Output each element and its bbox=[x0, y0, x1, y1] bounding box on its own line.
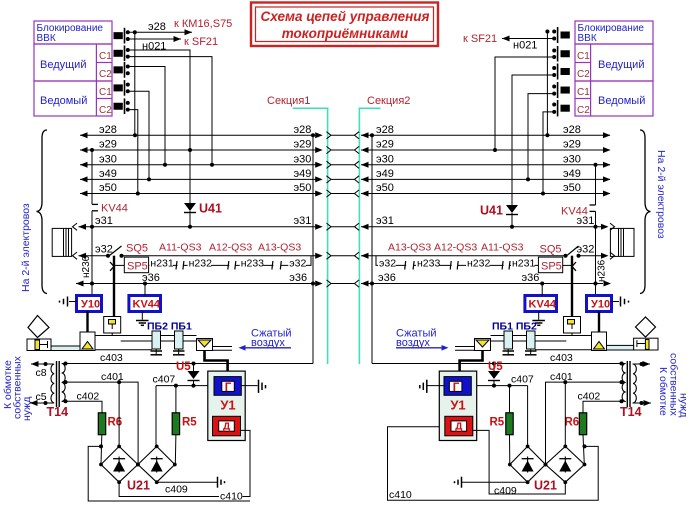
svg-text:с8: с8 bbox=[36, 367, 47, 379]
svg-text:SP5: SP5 bbox=[541, 261, 562, 273]
svg-text:э29: э29 bbox=[99, 139, 117, 151]
block Ведомый (left) bbox=[34, 81, 112, 116]
svg-text:э32: э32 bbox=[577, 244, 595, 256]
contact C1 Ведущий (right) bbox=[552, 46, 569, 62]
section boundary line 2 bbox=[359, 108, 381, 364]
wire valve to Г unit (right) bbox=[460, 351, 483, 373]
svg-text:с403: с403 bbox=[550, 352, 573, 364]
svg-text:э50: э50 bbox=[563, 182, 581, 194]
svg-text:Д: Д bbox=[455, 422, 462, 433]
rectifier bridge U21-2 (left) bbox=[136, 445, 177, 485]
contact C2 Ведомый (left) bbox=[114, 98, 130, 114]
wire common vertical to э28 (right) bbox=[545, 30, 549, 138]
air pipe lines (right) bbox=[491, 336, 593, 350]
contact blocking BBK (right) bbox=[552, 27, 569, 43]
svg-text:На 2-й электровоз: На 2-й электровоз bbox=[655, 150, 667, 239]
svg-text:У1: У1 bbox=[220, 398, 235, 413]
svg-text:С1: С1 bbox=[577, 51, 590, 62]
svg-text:э49: э49 bbox=[376, 168, 394, 180]
rectifier bridge U21-1 (right) bbox=[508, 445, 547, 485]
wire C2-Ведущий bottom to э30 bbox=[128, 67, 167, 167]
rectifier bridge U21-1 (left) bbox=[99, 445, 140, 485]
ground below KV44 (left) bbox=[136, 312, 149, 326]
valve ПБ2 (left) bbox=[151, 331, 163, 356]
wire э28 to КМ16 (left) bbox=[128, 21, 192, 35]
air pipe lines (left) bbox=[95, 336, 197, 350]
contact C1 Ведомый (left) bbox=[114, 80, 130, 96]
svg-text:н233: н233 bbox=[417, 258, 440, 270]
svg-text:э28: э28 bbox=[99, 124, 117, 136]
svg-text:э49: э49 bbox=[563, 168, 581, 180]
wire to нужды bottom (right) bbox=[633, 400, 652, 406]
svg-text:к SF21: к SF21 bbox=[463, 33, 497, 45]
svg-text:A13-QS3: A13-QS3 bbox=[258, 242, 301, 254]
svg-text:Т14: Т14 bbox=[620, 405, 642, 419]
contact C2 Ведущий (left) bbox=[114, 62, 130, 78]
wire э29 right segment bbox=[361, 139, 611, 154]
svg-text:с5: с5 bbox=[36, 391, 47, 403]
node н231 (left) bbox=[149, 258, 173, 268]
svg-text:э28: э28 bbox=[294, 124, 312, 136]
wire э49 left segment bbox=[80, 168, 323, 183]
node н231 (right) bbox=[511, 258, 535, 268]
wire э49 right segment bbox=[361, 168, 611, 183]
contact QS3 aux 3 (right) bbox=[405, 261, 414, 270]
wire C1-Ведущий to э29 (right) bbox=[493, 57, 554, 152]
lamp Г (left) bbox=[214, 377, 241, 396]
wire э28 to с403 (right) bbox=[370, 133, 374, 363]
wire У10 to valve (right) bbox=[598, 312, 600, 333]
unit У1 (right) bbox=[439, 371, 476, 440]
svg-text:U41: U41 bbox=[480, 204, 503, 218]
wire с8 arrow (left) bbox=[31, 361, 54, 379]
wire return rail (left) bbox=[88, 444, 250, 501]
wire C1-Ведомый to э49 bbox=[128, 91, 151, 181]
air valve with triangle (right) bbox=[475, 339, 491, 351]
svg-text:э49: э49 bbox=[99, 168, 117, 180]
svg-text:э30: э30 bbox=[294, 153, 312, 165]
contact QS3 aux 2 (left) bbox=[228, 261, 236, 270]
pressure switch SP5 (left) bbox=[110, 256, 149, 317]
svg-text:с409: с409 bbox=[165, 484, 188, 496]
diode U41 (left) bbox=[184, 202, 222, 229]
connector break э49 bbox=[327, 176, 360, 183]
wire э30 left segment bbox=[80, 153, 323, 168]
ground at Г (right) bbox=[420, 380, 444, 393]
block Ведущий (right) bbox=[575, 44, 653, 81]
svg-text:н232: н232 bbox=[467, 258, 490, 270]
block Блокирование ВВК (left) bbox=[34, 21, 112, 44]
transformer T14 (left) bbox=[47, 361, 69, 419]
svg-text:Схема цепей управления: Схема цепей управления bbox=[261, 9, 430, 24]
svg-text:э31: э31 bbox=[294, 215, 312, 227]
wire C1-Ведомый to э49 (right) bbox=[526, 94, 554, 182]
air pipe cyan segment (left) bbox=[51, 346, 80, 351]
svg-text:A11-QS3: A11-QS3 bbox=[481, 242, 524, 254]
svg-text:н232: н232 bbox=[189, 258, 212, 270]
svg-text:KV44: KV44 bbox=[561, 206, 588, 218]
svg-text:SQ5: SQ5 bbox=[126, 243, 148, 255]
valve body SP5 (right) bbox=[564, 317, 581, 336]
svg-text:Т14: Т14 bbox=[47, 405, 69, 419]
node н232 (right) bbox=[466, 258, 490, 268]
title box bbox=[251, 3, 438, 47]
svg-text:С2: С2 bbox=[99, 69, 112, 80]
svg-text:с401: с401 bbox=[101, 371, 124, 383]
svg-text:н236: н236 bbox=[597, 259, 608, 282]
diode U41 (right) bbox=[480, 204, 518, 229]
svg-text:A11-QS3: A11-QS3 bbox=[159, 242, 202, 254]
wire э36 right segment bbox=[361, 272, 611, 287]
contact QS3 aux 3 (left) bbox=[272, 261, 281, 270]
svg-text:R5: R5 bbox=[182, 417, 197, 429]
valve body У10 (left) bbox=[80, 332, 95, 351]
connector break э36 bbox=[327, 280, 360, 287]
svg-text:A12-QS3: A12-QS3 bbox=[209, 242, 252, 254]
svg-text:нужд: нужд bbox=[21, 397, 33, 421]
valve coil У10 (left) bbox=[77, 296, 102, 312]
svg-text:С1: С1 bbox=[577, 87, 590, 98]
air pipe cyan segment (right) bbox=[606, 345, 634, 350]
connector socket (left) bbox=[52, 228, 71, 256]
svg-text:KV44: KV44 bbox=[101, 203, 128, 215]
relay contact KV44 (left) bbox=[90, 148, 128, 296]
contact C1 Ведущий (left) bbox=[114, 46, 130, 62]
wire return rail (right) bbox=[388, 427, 599, 500]
node н232 (left) bbox=[188, 258, 212, 268]
contact QS3 aux 2 (right) bbox=[450, 261, 458, 270]
lamp Г (right) bbox=[444, 377, 471, 396]
contact QS3 aux 1 (right) bbox=[502, 261, 510, 270]
svg-text:э28: э28 bbox=[148, 21, 166, 33]
wire э50 left segment bbox=[80, 182, 323, 197]
svg-text:ВВК: ВВК bbox=[37, 33, 56, 44]
svg-text:ВВК: ВВК bbox=[578, 33, 597, 44]
svg-text:U41: U41 bbox=[199, 202, 222, 216]
valve ПБ1 (right) bbox=[503, 331, 515, 356]
contact QS3 aux 1 (left) bbox=[176, 261, 184, 270]
wire э50 right segment bbox=[361, 182, 611, 197]
wire с402 (right) bbox=[578, 391, 626, 413]
connector break э30 bbox=[327, 161, 360, 168]
svg-text:U21: U21 bbox=[534, 479, 557, 493]
wire с5 arrow (left) bbox=[30, 391, 54, 406]
wire э28 left segment bbox=[80, 124, 323, 139]
svg-text:SQ5: SQ5 bbox=[540, 244, 562, 256]
svg-text:К обмотке: К обмотке bbox=[657, 367, 669, 416]
svg-text:Секция1: Секция1 bbox=[267, 95, 310, 107]
air valve with triangle (left) bbox=[197, 339, 213, 351]
svg-text:Секция2: Секция2 bbox=[367, 95, 410, 107]
ground below KV44 (right) bbox=[532, 312, 545, 326]
svg-text:У10: У10 bbox=[81, 299, 100, 311]
wire C1-Ведущий to э29 bbox=[128, 50, 192, 203]
air outlet pipe (right) bbox=[455, 347, 475, 351]
relay contact KV44 (right) bbox=[561, 163, 598, 296]
resistor R6 (left) bbox=[98, 413, 122, 465]
svg-text:э30: э30 bbox=[99, 153, 117, 165]
svg-text:С1: С1 bbox=[99, 51, 112, 62]
label Сжатый воздух (left) bbox=[239, 328, 292, 351]
lamp Д (right) bbox=[445, 416, 473, 436]
svg-text:с410: с410 bbox=[389, 489, 412, 501]
wire с401 (left) bbox=[62, 371, 138, 465]
wire э32 right segment bbox=[361, 253, 568, 259]
svg-text:с409: с409 bbox=[494, 485, 517, 497]
connector break э32 bbox=[327, 252, 360, 259]
svg-text:к SF21: к SF21 bbox=[184, 36, 218, 48]
pneumatic cylinder (left) bbox=[27, 339, 51, 351]
wire с402 (left) bbox=[62, 391, 102, 413]
wire н021 to SF21 (left) bbox=[128, 36, 181, 53]
wire У10 to valve (left) bbox=[86, 312, 88, 333]
pantograph symbol (right) bbox=[636, 317, 656, 337]
diode U5 (right) bbox=[488, 361, 503, 388]
contact blocking BBK (left) bbox=[114, 28, 130, 44]
svg-text:На 2-й электровоз: На 2-й электровоз bbox=[20, 203, 32, 292]
svg-text:Ведущий: Ведущий bbox=[598, 59, 644, 71]
brace На 2-й электровоз (left) bbox=[37, 130, 48, 294]
svg-text:С2: С2 bbox=[577, 69, 590, 80]
resistor R5 (left) bbox=[172, 384, 197, 465]
valve ПБ2 (right) bbox=[525, 331, 537, 356]
svg-text:н231: н231 bbox=[150, 258, 173, 270]
svg-text:KV44: KV44 bbox=[133, 299, 161, 311]
wire с401 (right) bbox=[546, 371, 626, 465]
svg-text:э31: э31 bbox=[376, 215, 394, 227]
contact C2 Ведомый (right) bbox=[552, 100, 569, 116]
svg-text:э29: э29 bbox=[376, 139, 394, 151]
svg-text:с402: с402 bbox=[578, 391, 601, 403]
relay coil KV44 box (left) bbox=[129, 282, 161, 312]
wire э31 left segment bbox=[73, 215, 323, 230]
valve ПБ1 (left) bbox=[173, 331, 185, 356]
wire э28 to с403 (left) bbox=[311, 133, 315, 363]
label Сжатый воздух (right) bbox=[396, 328, 449, 351]
wire C2-Ведущий to U41 (right) bbox=[512, 75, 554, 205]
svg-text:Д: Д bbox=[223, 422, 230, 433]
wire C2-Ведущий top to э30 bbox=[128, 57, 214, 167]
contact C1 Ведомый (right) bbox=[552, 82, 569, 98]
svg-text:С2: С2 bbox=[99, 105, 112, 116]
pneumatic cylinder (right) bbox=[634, 338, 658, 350]
label К обмотке собственных нужд (left) bbox=[2, 355, 33, 421]
ground at Г (left) bbox=[241, 380, 265, 393]
svg-text:э28: э28 bbox=[376, 124, 394, 136]
wire с407 (right) bbox=[471, 374, 534, 447]
svg-text:с401: с401 bbox=[550, 371, 573, 383]
svg-text:э49: э49 bbox=[294, 168, 312, 180]
contact C2 Ведущий (right) bbox=[552, 64, 569, 80]
node н233 (right) bbox=[416, 258, 440, 268]
svg-text:Ведомый: Ведомый bbox=[40, 95, 87, 107]
label К обмотке собственных нужд (right) bbox=[657, 353, 690, 417]
brace На 2-й электровоз (right) bbox=[640, 130, 651, 294]
svg-text:с407: с407 bbox=[153, 374, 176, 386]
section boundary line 1 bbox=[293, 108, 329, 364]
wire common vertical to э28 (left) bbox=[133, 30, 137, 137]
transformer T14 (right) bbox=[620, 361, 642, 419]
wire э30 right segment bbox=[361, 153, 611, 168]
switch SQ5 blade (right) bbox=[540, 244, 581, 258]
connector break э29 bbox=[327, 146, 360, 153]
svg-text:токоприёмниками: токоприёмниками bbox=[282, 26, 409, 41]
node э32 chain (left) bbox=[288, 258, 306, 268]
svg-text:э36: э36 bbox=[289, 272, 307, 284]
wire с409 (left) bbox=[157, 482, 217, 495]
wire bridge1 top to с401 (left) bbox=[118, 382, 120, 446]
wire с403 (left) bbox=[62, 352, 313, 366]
svg-text:С1: С1 bbox=[99, 87, 112, 98]
wire interlock chain (right) bbox=[376, 256, 538, 266]
svg-text:A12-QS3: A12-QS3 bbox=[434, 242, 477, 254]
wire с410 (right) bbox=[388, 430, 565, 501]
wire с409 (right) bbox=[462, 482, 528, 497]
ground at У10 (right) bbox=[612, 297, 629, 307]
switch SQ5 blade (left) bbox=[108, 243, 148, 258]
block Блокирование ВВК (right) bbox=[575, 21, 653, 44]
unit У1 (left) bbox=[208, 371, 245, 440]
node н233 (left) bbox=[240, 258, 264, 268]
svg-text:э30: э30 bbox=[563, 153, 581, 165]
svg-text:Г: Г bbox=[453, 382, 460, 394]
svg-text:н236: н236 bbox=[81, 255, 92, 278]
wire с407 (left) bbox=[153, 374, 215, 447]
svg-text:U5: U5 bbox=[176, 361, 191, 373]
ground at У10 (left) bbox=[60, 297, 77, 307]
connector socket (right) bbox=[610, 228, 634, 256]
svg-text:Г: Г bbox=[225, 382, 232, 394]
svg-text:э32: э32 bbox=[289, 258, 306, 270]
svg-text:н021: н021 bbox=[513, 40, 537, 52]
wire C2-Ведомый to э50 bbox=[128, 110, 140, 196]
svg-text:У10: У10 bbox=[591, 299, 610, 311]
pantograph symbol (left) bbox=[28, 316, 49, 338]
resistor R5 (right) bbox=[490, 384, 514, 465]
svg-text:э50: э50 bbox=[376, 182, 394, 194]
svg-text:э31: э31 bbox=[95, 215, 113, 227]
svg-text:A13-QS3: A13-QS3 bbox=[388, 242, 431, 254]
ground с409 (right) bbox=[455, 477, 462, 488]
svg-text:SP5: SP5 bbox=[127, 261, 148, 273]
block Ведомый (right) bbox=[575, 81, 653, 116]
wire bridge2 top to с401 (right) bbox=[564, 382, 566, 446]
svg-text:Ведомый: Ведомый bbox=[598, 95, 645, 107]
wire C2-Ведомый to э50 (right) bbox=[541, 112, 554, 196]
svg-text:н233: н233 bbox=[241, 258, 264, 270]
svg-text:с403: с403 bbox=[100, 352, 123, 364]
svg-text:э32: э32 bbox=[379, 258, 396, 270]
svg-text:Ведущий: Ведущий bbox=[40, 59, 86, 71]
svg-text:нужд: нужд bbox=[678, 393, 690, 417]
wire с410 (left) bbox=[119, 430, 250, 502]
wire valve to Г unit (left) bbox=[205, 351, 228, 373]
svg-text:С2: С2 bbox=[577, 105, 590, 116]
svg-text:U21: U21 bbox=[127, 479, 150, 493]
svg-text:э29: э29 bbox=[294, 139, 312, 151]
wire с403 (right) bbox=[372, 352, 625, 366]
wire э36 left segment bbox=[76, 272, 323, 287]
connector break э50 bbox=[327, 190, 360, 197]
svg-text:У1: У1 bbox=[450, 398, 465, 413]
connector break э28 bbox=[327, 132, 360, 139]
svg-text:э29: э29 bbox=[563, 139, 581, 151]
air outlet pipe (left) bbox=[213, 347, 233, 351]
svg-text:с407: с407 bbox=[511, 374, 534, 386]
rectifier bridge U21-2 (right) bbox=[544, 445, 587, 485]
svg-text:э50: э50 bbox=[99, 182, 117, 194]
lamp Д (left) bbox=[213, 416, 241, 436]
svg-text:R6: R6 bbox=[108, 417, 123, 429]
svg-text:R6: R6 bbox=[565, 417, 580, 429]
svg-text:э36: э36 bbox=[522, 272, 540, 284]
relay coil KV44 box (right) bbox=[525, 282, 557, 312]
svg-text:U5: U5 bbox=[488, 361, 503, 373]
valve coil У10 (right) bbox=[587, 296, 612, 312]
wire э32 right continuation bbox=[577, 244, 615, 260]
wire э32 left continuation bbox=[95, 244, 323, 259]
svg-text:э30: э30 bbox=[376, 153, 394, 165]
wire interlock chain (left) bbox=[149, 256, 311, 266]
connector break э31 bbox=[327, 223, 360, 230]
svg-text:н231: н231 bbox=[512, 258, 535, 270]
svg-text:э50: э50 bbox=[294, 182, 312, 194]
valve body У10 (right) bbox=[592, 332, 607, 351]
valve body SP5 (left) bbox=[104, 317, 121, 336]
svg-text:с402: с402 bbox=[77, 391, 100, 403]
diode U5 (left) bbox=[176, 361, 200, 388]
ground с409 (left) bbox=[218, 477, 225, 488]
wire э28 right segment bbox=[361, 124, 611, 139]
wire to нужды top (right) bbox=[633, 361, 651, 367]
svg-text:к КМ16,S75: к КМ16,S75 bbox=[174, 18, 232, 30]
pressure switch SP5 (right) bbox=[538, 256, 576, 317]
wire э31 right segment bbox=[361, 215, 615, 230]
svg-text:э36: э36 bbox=[378, 272, 396, 284]
node э32 chain (right) bbox=[378, 258, 396, 268]
wire э32 left segment bbox=[73, 252, 111, 259]
svg-text:KV44: KV44 bbox=[529, 299, 557, 311]
resistor R6 (right) bbox=[565, 413, 587, 465]
wire э29 left segment bbox=[80, 139, 323, 154]
block Ведущий (left) bbox=[34, 44, 112, 81]
svg-text:э32: э32 bbox=[95, 244, 113, 256]
svg-text:н021: н021 bbox=[142, 41, 166, 53]
wire н021 to SF21 (right) bbox=[502, 36, 554, 52]
svg-text:э28: э28 bbox=[563, 124, 581, 136]
svg-text:R5: R5 bbox=[490, 417, 505, 429]
